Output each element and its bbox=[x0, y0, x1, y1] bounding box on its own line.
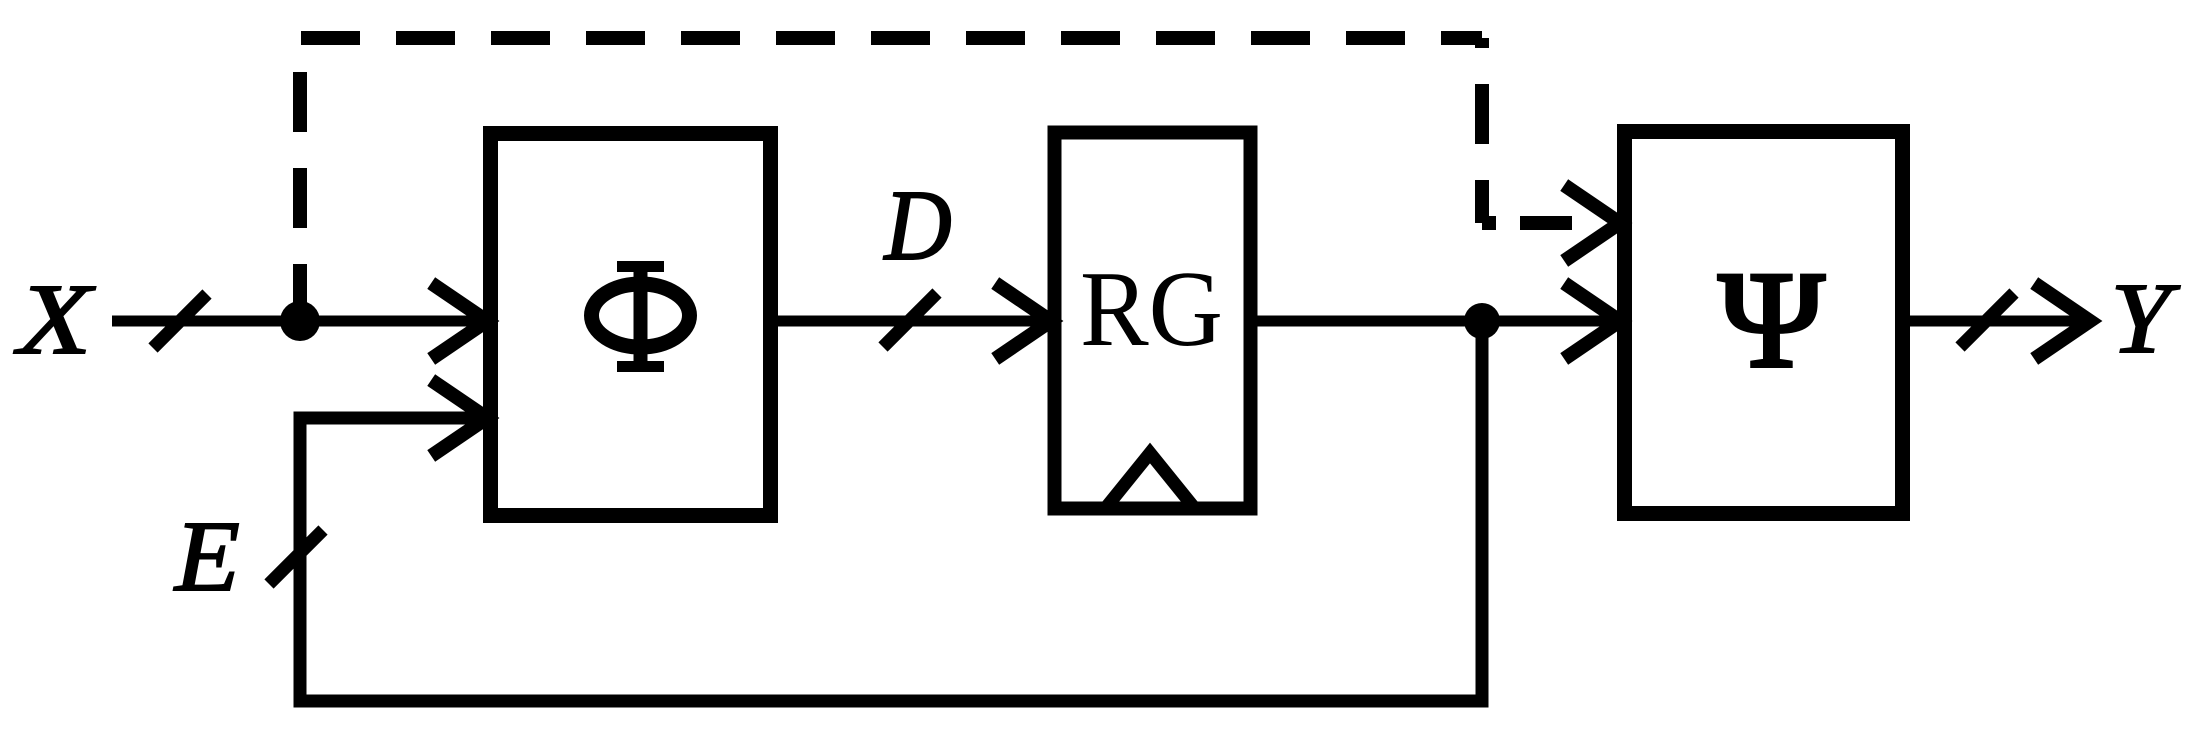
wire RG output to node bbox=[1257, 316, 1482, 327]
svg-text:E: E bbox=[173, 501, 240, 612]
block PSI rectangle bbox=[1625, 132, 1903, 514]
arrowhead X wire into PHI bbox=[437, 287, 487, 355]
dashed wire vertical right bbox=[1475, 38, 1489, 223]
block PHI glyph: vertical stem bbox=[634, 261, 648, 372]
svg-text:Ψ: Ψ bbox=[1719, 243, 1825, 396]
svg-text:D: D bbox=[883, 169, 952, 280]
block PHI glyph: top serif bar bbox=[617, 261, 664, 272]
wire X input bbox=[112, 316, 483, 327]
bus slash on E wire bbox=[269, 530, 323, 584]
arrowhead E wire into PHI bbox=[437, 384, 487, 452]
node RG output junction dot bbox=[1464, 303, 1500, 339]
dashed wire horizontal top bbox=[301, 31, 1482, 45]
svg-text:X: X bbox=[14, 264, 96, 376]
svg-text:RG: RG bbox=[1080, 250, 1223, 369]
arrowhead Y output bbox=[2040, 287, 2090, 355]
svg-text:Y: Y bbox=[2111, 262, 2181, 374]
wire PHI to RG (signal D) bbox=[770, 316, 1050, 327]
arrowhead state wire into PSI bbox=[1570, 287, 1620, 355]
wire feedback loop: node down, bottom, up left, E into PHI second input bbox=[300, 321, 1482, 701]
bus slash on Y wire bbox=[1960, 293, 2014, 347]
block PHI glyph: bottom serif bar bbox=[617, 361, 664, 372]
bus slash on D wire bbox=[883, 293, 937, 347]
node X junction dot bbox=[280, 301, 320, 341]
register RG rectangle bbox=[1055, 133, 1251, 509]
block PHI glyph: ellipse ring bbox=[592, 284, 690, 347]
arrowhead D wire into RG bbox=[1001, 287, 1051, 355]
arrowhead dashed line into PSI top input bbox=[1570, 189, 1620, 257]
bus slash on X wire bbox=[153, 294, 207, 348]
wire node to PSI bbox=[1482, 316, 1617, 327]
dashed wire vertical left (from X node up) bbox=[293, 38, 307, 311]
register RG clock edge triangle bbox=[1104, 453, 1196, 510]
dashed wire horizontal into PSI bbox=[1482, 216, 1572, 230]
block PHI rectangle bbox=[491, 134, 771, 516]
wire PSI output Y bbox=[1910, 316, 2088, 327]
